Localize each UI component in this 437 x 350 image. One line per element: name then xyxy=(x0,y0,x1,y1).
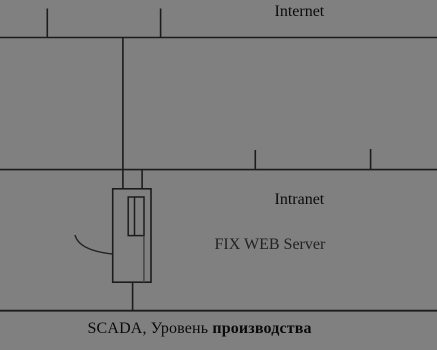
label SCADA production level xyxy=(88,321,312,337)
mouse cable xyxy=(75,235,113,254)
server drive bay slot xyxy=(128,197,144,236)
label Internet xyxy=(275,4,325,20)
wire: Internet bus to server xyxy=(122,38,124,190)
label Intranet xyxy=(275,192,325,208)
Internet backbone bus xyxy=(0,37,437,39)
drop tick left on Intranet bus xyxy=(254,150,256,170)
wire: server to SCADA bus xyxy=(132,282,134,311)
drive bay divider xyxy=(134,197,136,236)
server tower body xyxy=(113,189,151,282)
server panel line xyxy=(143,236,145,283)
wire: Intranet bus to server xyxy=(141,170,143,189)
SCADA backbone bus xyxy=(0,310,437,312)
drop tick mid on Internet bus xyxy=(160,9,162,38)
drop tick right on Intranet bus xyxy=(370,149,372,170)
label FIX WEB Server xyxy=(215,237,326,253)
drop tick left on Internet bus xyxy=(46,9,48,38)
Intranet backbone bus xyxy=(0,169,437,171)
